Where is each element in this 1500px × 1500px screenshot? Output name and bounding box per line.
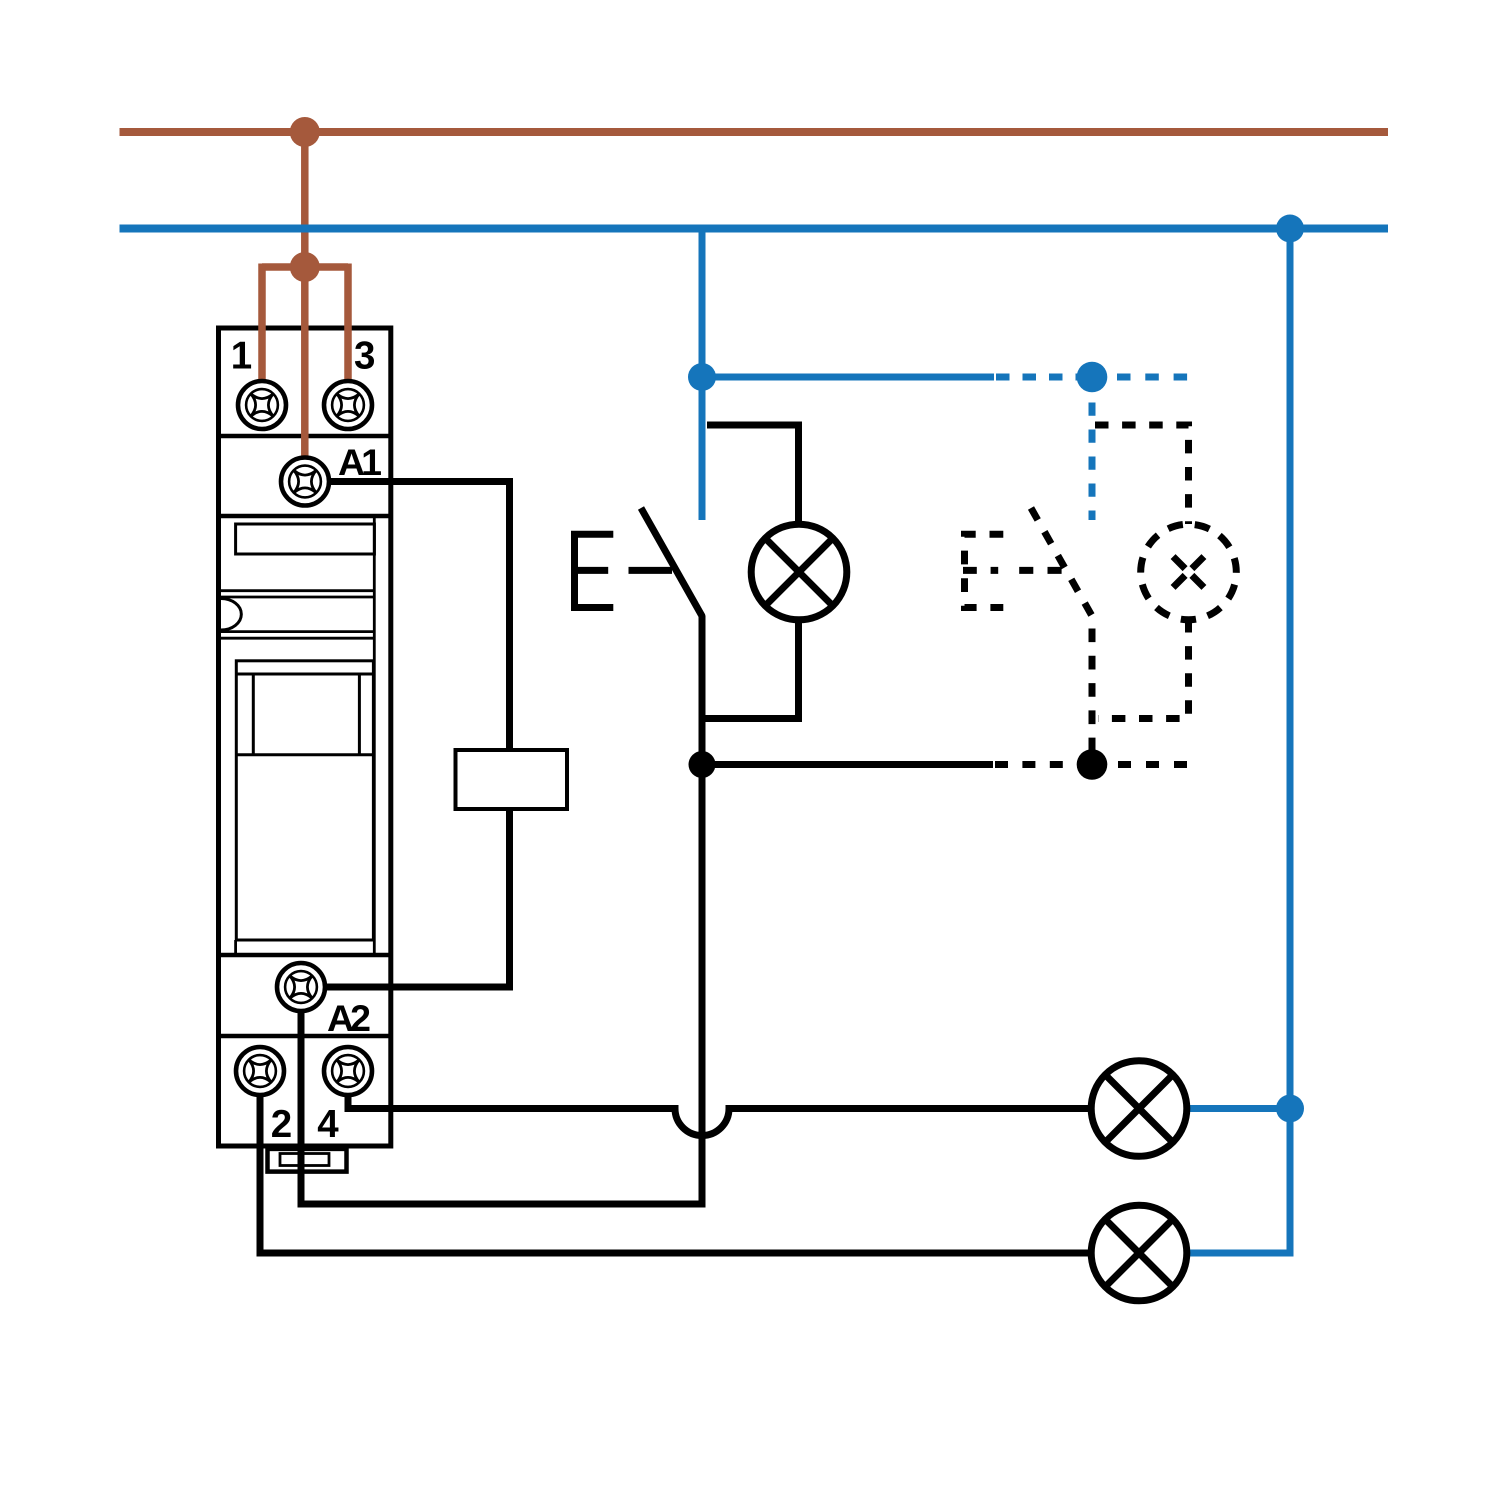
neutral junction dot at lamp E1 <box>1276 1095 1304 1123</box>
neutral wire lamp E1 <box>1187 1105 1291 1112</box>
phase bus L <box>120 128 1389 136</box>
dashed lamp X <box>1155 538 1223 606</box>
wire A1 to coil to A2 <box>301 482 510 988</box>
svg-text:1: 1 <box>231 335 252 378</box>
dashed lamp bottom wire <box>1098 619 1189 719</box>
actuator E symbol <box>575 534 614 607</box>
contactor case line 2 <box>219 596 375 599</box>
svg-text:3: 3 <box>354 335 375 378</box>
svg-text:A1: A1 <box>338 441 381 483</box>
terminal 2 screw <box>236 1047 284 1095</box>
dashed actuator link <box>1019 567 1062 574</box>
dashed lamp circle <box>1141 524 1237 620</box>
neutral bus N <box>120 225 1389 233</box>
dashed neutral junction dot <box>1077 362 1108 393</box>
contactor window top line <box>236 673 373 676</box>
terminal A2 screw <box>277 963 325 1011</box>
wire terminal 4 to lamp E1 with hop <box>348 1071 1092 1136</box>
contactor inner left stub <box>234 940 237 955</box>
wire A2 return to switch node <box>301 765 702 1205</box>
phase wire drop from L <box>301 132 309 267</box>
dashed neutral drop <box>1089 403 1096 521</box>
contactor case line 3 <box>219 630 375 633</box>
terminal 1 screw <box>238 381 286 429</box>
dashed actuator E symbol <box>965 534 1004 607</box>
contactor inner right vertical <box>373 516 376 955</box>
contactor window bottom line <box>236 753 373 756</box>
neutral drop to switch <box>699 229 706 378</box>
coil K1 <box>456 750 568 809</box>
svg-text:A2: A2 <box>327 997 370 1039</box>
contactor window right tab vertical <box>358 674 361 755</box>
dashed lamp top loop <box>1095 425 1189 524</box>
wire lamp H1 top loop <box>707 425 799 524</box>
svg-text:2: 2 <box>271 1103 292 1146</box>
contactor divider above A2 <box>216 953 393 958</box>
neutral junction dot on N <box>1276 215 1304 243</box>
terminal 3 screw <box>324 381 372 429</box>
dashed node junction dot <box>1077 749 1108 780</box>
terminal A1 screw <box>281 458 329 506</box>
svg-text:4: 4 <box>317 1103 339 1146</box>
phase wire to terminal 1 <box>258 264 266 406</box>
phase wire to terminal 3 <box>344 264 352 406</box>
phase junction dot on L <box>290 117 320 147</box>
contactor label slot <box>236 524 375 554</box>
contactor window left tab vertical <box>252 674 255 755</box>
phase branch junction dot <box>290 252 320 282</box>
contactor front window <box>236 661 373 940</box>
dashed neutral branch right <box>1117 374 1188 381</box>
wire lamp H1 bottom to switch <box>702 619 799 719</box>
dashed neutral branch left <box>996 374 1090 381</box>
contactor divider below A1 <box>216 514 393 519</box>
DIN clip <box>268 1149 347 1172</box>
wire terminal 2 to lamp E2 <box>260 1071 1092 1253</box>
switch S1 blade and lower vertical <box>641 508 702 765</box>
dashed wire to section right <box>1118 761 1188 768</box>
lamp E1 <box>1091 1061 1187 1157</box>
phase branch horizontal <box>262 263 348 271</box>
lamp H1 <box>751 524 847 620</box>
contactor divider above terminals 2-4 <box>216 1034 393 1039</box>
contactor case line 1 <box>219 589 375 592</box>
switch S1 actuator link <box>629 567 673 574</box>
neutral junction dot at switch <box>688 363 716 391</box>
phase wire to terminal A1 <box>301 267 309 482</box>
node junction dot <box>689 751 716 778</box>
terminal 4 screw <box>324 1047 372 1095</box>
neutral branch to dashed section <box>702 374 994 381</box>
neutral right drop <box>1187 229 1291 1254</box>
contactor left notch half-ellipse <box>221 599 241 631</box>
contactor case line 4 <box>219 637 375 640</box>
neutral wire to switch contact <box>699 377 706 520</box>
contactor K1 outline <box>219 328 391 1146</box>
wire node to dashed section <box>702 761 993 768</box>
contactor divider below terminals 1-3 <box>216 434 393 439</box>
dashed switch blade and lower vertical <box>1031 508 1092 758</box>
DIN clip slot <box>280 1154 329 1166</box>
dashed wire to section left <box>995 761 1090 768</box>
lamp E2 <box>1091 1205 1187 1301</box>
dashed actuator E middle arm <box>963 567 998 574</box>
